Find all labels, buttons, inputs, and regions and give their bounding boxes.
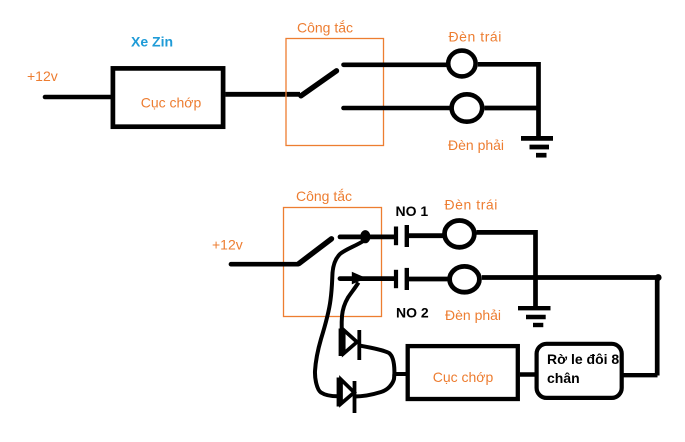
wire switch to contact NO1 xyxy=(340,234,394,239)
svg-text:Đèn phải: Đèn phải xyxy=(445,307,501,323)
svg-text:NO 2: NO 2 xyxy=(396,305,429,321)
wire from NO2 arrow down to upper diode (curvy) xyxy=(342,283,359,330)
contact NO2 right bar xyxy=(405,268,409,290)
wire switch to contact NO2 xyxy=(340,276,394,281)
svg-text:Xe Zin: Xe Zin xyxy=(131,34,173,50)
svg-text:Đèn trái: Đèn trái xyxy=(449,29,502,45)
contact NO1 right bar xyxy=(405,225,409,247)
junction blob on NO1 wire xyxy=(360,230,370,243)
svg-text:Cục chớp: Cục chớp xyxy=(433,369,494,385)
ground symbol (bottom circuit) xyxy=(518,308,551,325)
wire diode D2 cathode to flasher box (curvy) xyxy=(355,374,395,397)
wire from flasher box to switch common xyxy=(226,92,301,97)
svg-text:chân: chân xyxy=(547,370,580,386)
svg-text:Cục chớp: Cục chớp xyxy=(141,95,202,111)
wire switch throw 1 to left lamp xyxy=(344,63,447,68)
switch SW2 enclosure box xyxy=(284,208,382,317)
wire diode D1 cathode to flasher box (curvy) xyxy=(359,346,406,375)
wire from +12v to switch common (bottom) xyxy=(231,262,298,267)
wire relay box to rail xyxy=(622,373,658,377)
ground symbol (top circuit) xyxy=(521,138,553,155)
svg-text:Công tắc: Công tắc xyxy=(297,20,353,36)
diode D2 cathode bar xyxy=(353,381,357,413)
svg-text:Rờ le đôi 8: Rờ le đôi 8 xyxy=(547,351,619,367)
diode D2 triangle xyxy=(341,380,354,404)
svg-text:Đèn trái: Đèn trái xyxy=(445,197,498,213)
contact NO2 left bar xyxy=(394,270,398,288)
diode D1 triangle xyxy=(344,330,357,354)
wire from +12v to flasher box xyxy=(45,95,113,100)
lamp L3 Đèn trái (bottom) xyxy=(445,221,475,248)
svg-text:+12v: +12v xyxy=(212,237,243,253)
switch SW1 enclosure box xyxy=(286,39,384,146)
wire contact NO2 to right lamp xyxy=(409,277,450,282)
switch SW1 common pole (angled blade) xyxy=(301,71,337,96)
flasher box U2 Cục chớp (bottom) xyxy=(408,346,518,399)
arrow mark on NO2 wire xyxy=(352,272,367,285)
wire right lamp to relay rail xyxy=(482,278,657,376)
svg-text:NO 1: NO 1 xyxy=(396,203,429,219)
wire flasher box to relay box xyxy=(520,372,537,376)
svg-text:+12v: +12v xyxy=(27,68,58,84)
diode D1 cathode bar xyxy=(357,330,361,360)
wire switch throw 2 to right lamp xyxy=(344,106,451,111)
wire left lamp to ground rail xyxy=(478,64,539,136)
wire contact NO1 to left lamp xyxy=(409,233,446,238)
flasher box U1 Cục chớp (top) xyxy=(113,68,223,126)
wire left lamp to ground rail (bottom) xyxy=(477,232,536,306)
switch SW2 common pole (angled blade) xyxy=(299,239,332,264)
diode D1 (upper) anode bar xyxy=(339,329,343,357)
junction dot at rail top xyxy=(655,274,662,281)
wire right lamp to ground rail xyxy=(485,106,539,111)
contact NO1 left bar xyxy=(394,227,398,246)
lamp L4 Đèn phải (bottom) xyxy=(450,266,480,292)
svg-text:Đèn phải: Đèn phải xyxy=(448,137,504,153)
svg-text:Công tắc: Công tắc xyxy=(296,188,352,204)
relay box K1 Rờ le đôi 8 chân xyxy=(537,344,622,398)
lamp L2 Đèn phải (top) xyxy=(452,94,483,121)
diode D2 (lower) anode bar xyxy=(337,378,341,407)
lamp L1 Đèn trái (top) xyxy=(448,51,475,77)
wire from NO1 junction down to lower diode (curvy) xyxy=(315,240,365,396)
